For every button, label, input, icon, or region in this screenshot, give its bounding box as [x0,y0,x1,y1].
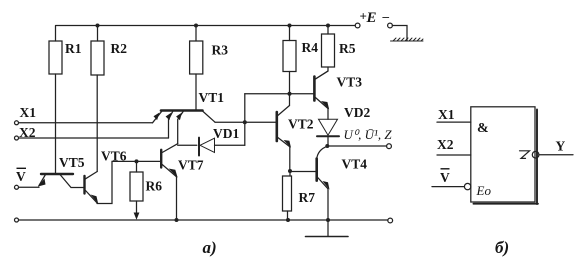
chassis common symbol [391,38,424,41]
svg-text:VT2: VT2 [288,117,314,132]
node top of R4 [288,24,292,28]
svg-text:б): б) [495,238,509,257]
input terminal X1 [15,121,19,125]
svg-text:–: – [382,9,390,24]
resistor R5 [327,26,329,35]
wire X1 of symbol [437,121,471,123]
inversion bubble output [532,151,539,158]
node VT4 emitter on rail [326,218,330,222]
input terminal V [15,185,19,189]
svg-text:X1: X1 [438,107,455,122]
svg-text:а): а) [203,238,217,257]
resistor R3 [195,26,197,42]
supply terminal - of E [388,23,393,28]
svg-text:Y: Y [556,139,566,154]
wire VT1 collector to VT2 base [215,121,277,123]
wire V input [19,186,39,188]
node top of R3 [194,24,198,28]
resistor R4 [289,26,291,41]
logic symbol box [471,107,538,204]
svg-text:V: V [16,169,26,184]
output terminal [387,144,392,149]
wire output [327,145,386,147]
wire bottom rail [19,219,388,221]
svg-text:VD2: VD2 [344,105,370,120]
wire top supply rail [56,25,355,27]
inversion bubble V input [464,183,470,189]
svg-text:V: V [440,170,450,185]
node top of R2 [96,24,100,28]
ground [306,236,349,238]
node VT7 emitter on rail [175,218,179,222]
input terminal X2 [15,136,19,140]
svg-text:R4: R4 [302,40,319,55]
svg-text:X2: X2 [19,125,36,140]
svg-text:R3: R3 [212,43,229,58]
transistor VT1 multi-emitter [153,111,216,144]
svg-text:R1: R1 [65,41,82,56]
svg-text:VT1: VT1 [199,90,225,105]
svg-text:R7: R7 [299,190,316,205]
resistor R7 [289,171,291,176]
terminal bottom left [15,218,19,222]
transistor VT4 [290,146,330,236]
svg-text:&: & [477,121,489,136]
svg-text:E: E [366,10,377,26]
svg-text:Eо: Eо [476,183,492,198]
svg-text:R2: R2 [111,41,128,56]
terminal bottom right [388,218,393,223]
node output [325,144,329,148]
svg-text:VT6: VT6 [101,149,127,164]
wire V of symbol [432,186,464,188]
svg-text:R6: R6 [146,179,163,194]
transistor VT6 [85,161,162,203]
svg-text:U⁰, Ū¹, Z: U⁰, Ū¹, Z [344,127,393,142]
wire X1 [19,122,153,124]
node VT2 collector / R4 [288,92,292,96]
svg-text:VT4: VT4 [342,157,368,172]
supply terminal + of E [355,23,360,28]
node VT2 emitter / R7 / VT4 base [288,169,292,173]
transistor VT3 [314,71,329,119]
svg-text:R5: R5 [339,41,356,56]
wire VT7 collector to VD1 [178,144,197,146]
svg-text:X2: X2 [437,137,454,152]
svg-text:VT3: VT3 [337,75,363,90]
transistor VT5 [38,174,83,188]
wire node to VT3 base and to VD1 [244,94,246,146]
svg-text:VD1: VD1 [213,126,239,141]
svg-text:VT7: VT7 [178,158,204,173]
transistor VT2 [277,106,291,172]
node VT7 base / R6 [135,159,139,163]
resistor R1 [55,26,57,42]
svg-text:X1: X1 [20,105,37,120]
wire VT3 base [245,93,315,95]
diode VD1 [199,138,245,156]
svg-text:VT5: VT5 [59,155,85,170]
three-state mark Z [520,151,530,159]
node VD1 anode junction [243,120,247,124]
node top of R5 [326,24,330,28]
transistor VT7 [161,144,178,221]
wire Y output [539,154,573,156]
wire from minus terminal [392,26,407,41]
resistor R2 [97,26,99,42]
wire X2 [19,137,169,139]
resistor R6 [136,161,138,172]
wire X2 of symbol [437,154,471,156]
diode VD2 [317,119,339,146]
